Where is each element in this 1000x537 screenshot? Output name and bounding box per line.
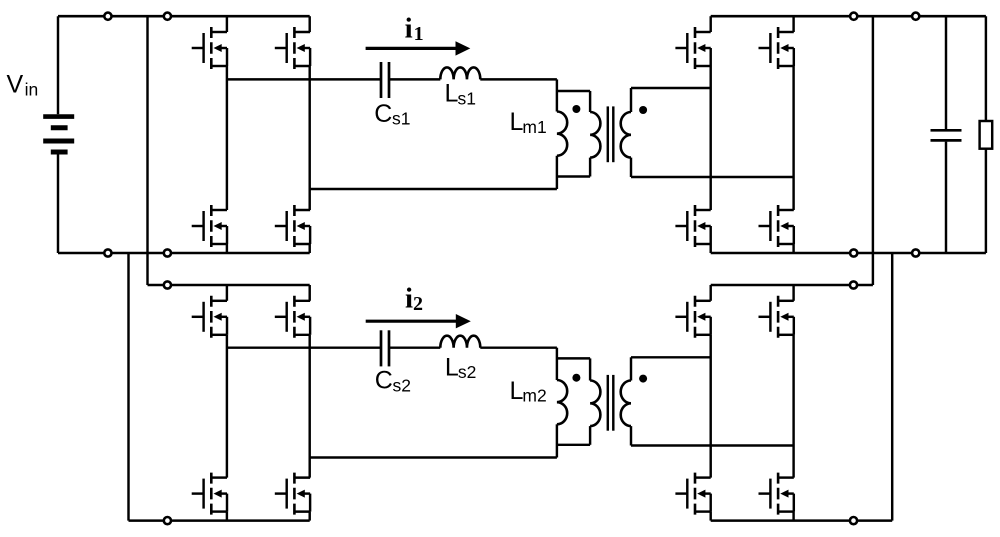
terminal node out1- [850, 249, 857, 256]
wire bridge1 output A to Cs1 [227, 78, 381, 80]
wire T1 primary top link [557, 90, 590, 92]
svg-text:L: L [445, 353, 459, 381]
battery Vin (source) [43, 114, 74, 119]
arrow i1 [366, 47, 456, 50]
wire Ls1 to transformer T1 [480, 78, 557, 80]
wire bridge1 leg B [308, 16, 310, 32]
transformer T2 secondary winding [630, 357, 632, 380]
transistor Q14 [759, 296, 794, 338]
wire bridge2 top rail [148, 284, 310, 287]
wire input bottom rail [58, 252, 310, 255]
transistor Q11 [675, 205, 710, 247]
terminal node bridge4+ [850, 281, 857, 288]
terminal node bridge2- [164, 517, 171, 524]
terminal node in1+ [104, 13, 111, 20]
transistor Q3 [192, 205, 227, 247]
wire input-to-bridge2 negative drop [127, 253, 129, 521]
inductor Ls2 [440, 336, 480, 348]
wire output bottom rail [711, 252, 986, 255]
transformer T2 primary winding [589, 358, 591, 380]
wire Cs1 to Ls1 [389, 78, 440, 80]
svg-text:m2: m2 [522, 385, 546, 405]
svg-text:L: L [510, 108, 524, 136]
wire output capacitor top lead [945, 16, 947, 129]
wire bridge2 leg B [308, 285, 310, 301]
terminal node out1+ [850, 13, 857, 20]
wire load resistor top lead [985, 16, 987, 121]
wire bridge4 bottom rail [711, 519, 893, 522]
svg-text:s2: s2 [393, 375, 411, 395]
svg-text:s2: s2 [458, 362, 476, 382]
transistor Q15 [675, 473, 710, 515]
wire bridge2 output A to Cs2 [227, 346, 381, 348]
transistor Q2 [275, 27, 310, 69]
wire input top rail [58, 15, 310, 18]
node T1 primary dot [572, 105, 580, 113]
svg-text:L: L [510, 377, 524, 405]
wire output top rail [711, 15, 986, 18]
wire Cs2 to Ls2 [389, 346, 440, 348]
capacitor Cs1 [380, 62, 383, 98]
node T2 primary dot [572, 374, 580, 382]
wire bridge3 leg B [792, 16, 794, 32]
wire load resistor bottom lead [985, 149, 987, 253]
wire battery top lead [57, 16, 59, 114]
terminal node out2+ [912, 13, 919, 20]
terminal node out2- [912, 249, 919, 256]
inductor Ls1 [440, 67, 480, 79]
arrow i2 [366, 320, 456, 323]
terminal node bridge4- [850, 517, 857, 524]
wire bridge1 output B to T1 [310, 188, 557, 190]
svg-text:s1: s1 [392, 108, 410, 128]
wire bridge4 top rail [711, 284, 873, 287]
wire bridge3 leg A [709, 16, 711, 32]
wire T1 secondary bottom to bridge3 [631, 176, 794, 178]
transistor Q13 [675, 296, 710, 338]
wire bridge2 leg A [226, 285, 228, 301]
capacitor Co (output) [931, 129, 962, 132]
wire T1 primary bottom link [557, 175, 590, 177]
wire bridge4 leg A [709, 285, 711, 301]
inductor Lm2 (magnetizing) [556, 348, 558, 380]
svg-text:1: 1 [414, 23, 424, 45]
svg-text:i: i [405, 282, 413, 314]
wire output- to bridge4 drop [891, 253, 893, 521]
wire T2 primary bottom link [557, 444, 590, 446]
transistor Q5 [192, 296, 227, 338]
svg-text:i: i [405, 13, 413, 45]
transistor Q9 [675, 27, 710, 69]
terminal node in1- [104, 249, 111, 256]
svg-text:m1: m1 [522, 117, 546, 137]
terminal node in2+ [164, 13, 171, 20]
transistor Q4 [275, 205, 310, 247]
node T1 secondary dot [639, 106, 647, 114]
wire bridge2 bottom rail [129, 519, 310, 522]
wire bridge4 leg B [792, 285, 794, 301]
svg-text:C: C [374, 100, 392, 128]
node T2 secondary dot [639, 375, 647, 383]
terminal node in2- [164, 249, 171, 256]
svg-text:C: C [375, 367, 393, 395]
transformer T1 core [607, 106, 609, 162]
wire output+ to bridge4 drop [872, 16, 874, 285]
transistor Q8 [275, 473, 310, 515]
transistor Q7 [192, 473, 227, 515]
terminal node bridge2+ [164, 281, 171, 288]
transformer T1 primary winding [589, 91, 591, 112]
transistor Q16 [759, 473, 794, 515]
wire T1 secondary top to bridge3 [631, 87, 711, 89]
wire bridge1 leg A [226, 16, 228, 32]
transistor Q6 [275, 296, 310, 338]
svg-text:in: in [25, 79, 39, 99]
transistor Q12 [759, 205, 794, 247]
wire battery bottom lead [57, 155, 59, 254]
transformer T2 core [607, 375, 609, 431]
wire T2 secondary bottom to bridge4 [631, 444, 794, 446]
wire Ls2 to transformer T2 [480, 346, 557, 348]
svg-text:s1: s1 [458, 88, 476, 108]
wire bridge2 output B to T2 [310, 456, 557, 458]
resistor RL (load) [980, 121, 993, 149]
transistor Q1 [192, 27, 227, 69]
inductor Lm1 (magnetizing) [556, 79, 558, 111]
svg-text:L: L [445, 80, 459, 108]
wire T2 secondary top to bridge4 [631, 356, 711, 358]
transformer T1 secondary winding [630, 88, 632, 112]
svg-text:2: 2 [413, 293, 423, 315]
svg-text:V: V [7, 71, 24, 99]
wire output capacitor bottom lead [945, 142, 947, 253]
wire input-to-bridge2 positive drop [146, 16, 148, 285]
capacitor Cs2 [380, 330, 383, 366]
transistor Q10 [759, 27, 794, 69]
wire T2 primary top link [557, 357, 590, 359]
